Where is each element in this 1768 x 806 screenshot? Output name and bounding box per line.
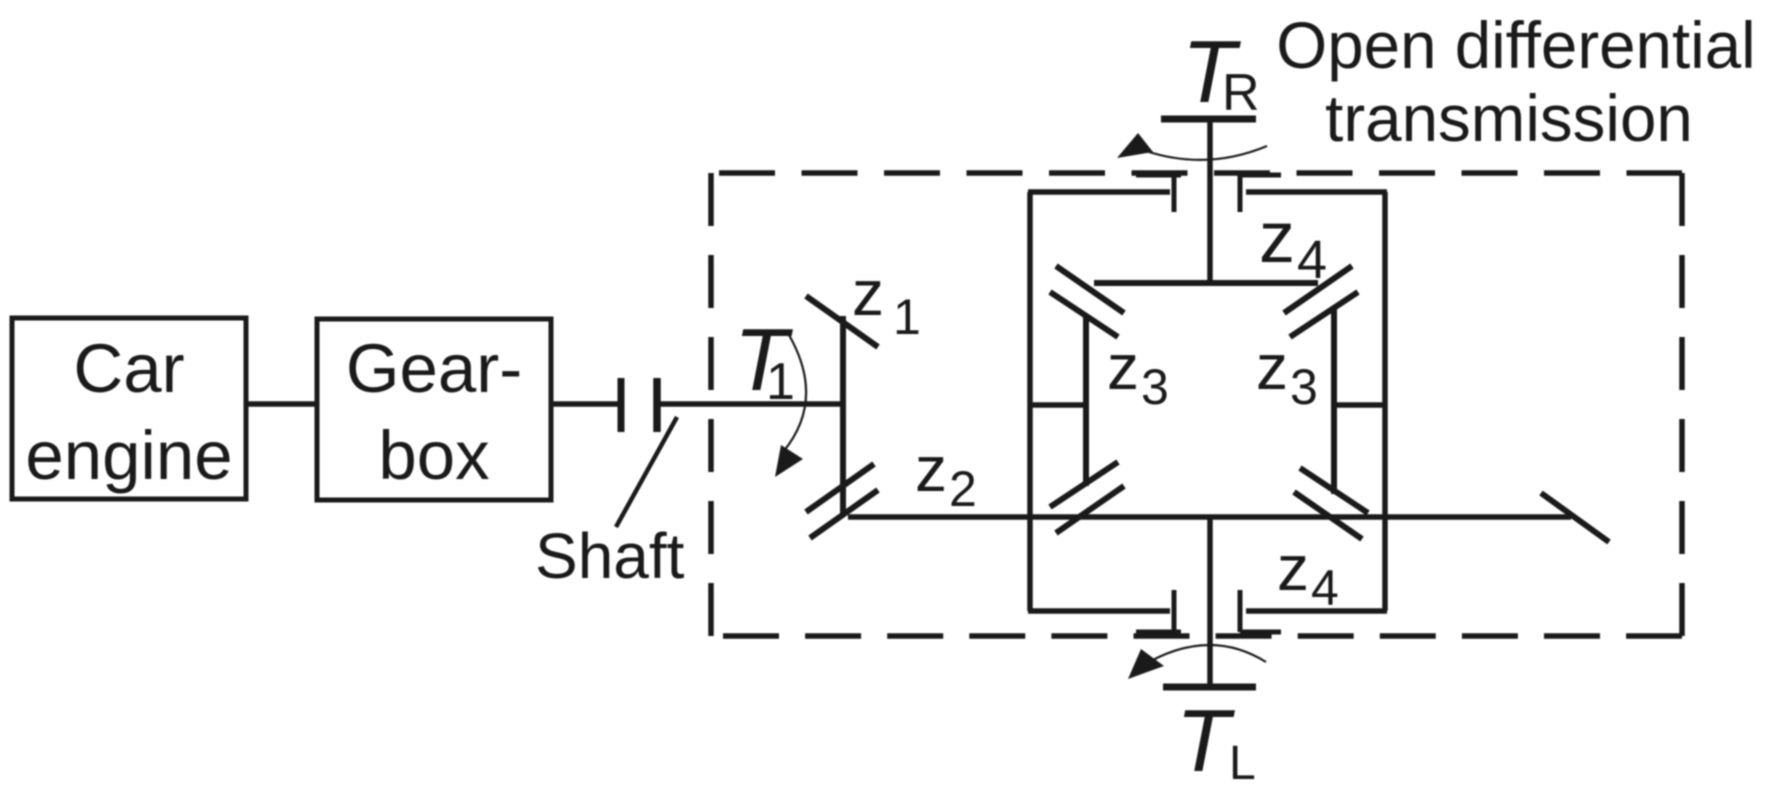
label: z3 right	[1256, 331, 1318, 415]
svg-text:z: z	[1277, 532, 1309, 604]
svg-text:z: z	[1259, 198, 1295, 278]
svg-text:Shaft: Shaft	[535, 520, 685, 592]
bearing bracket top-right	[1240, 175, 1281, 212]
gear z1 bevel stroke	[806, 296, 878, 347]
label: Car engine	[25, 330, 232, 494]
wire: engine to gearbox	[246, 401, 319, 407]
differential cage box	[1028, 192, 1387, 611]
axle line: z2 through differential to right output	[848, 514, 1571, 520]
label: z4 bottom	[1277, 532, 1339, 616]
bevel mesh mark top-left	[1050, 266, 1124, 337]
wire: coupling to gear z1 shaft	[660, 401, 845, 407]
svg-text:3: 3	[1141, 359, 1169, 415]
svg-text:R: R	[1222, 64, 1260, 122]
label: T1 torque	[734, 310, 795, 411]
svg-text:Gear-: Gear-	[346, 330, 522, 407]
bevel mesh mark top-right	[1284, 266, 1358, 337]
planet pinion bar left (z3)	[1083, 314, 1089, 486]
rotation arrow at T1	[783, 335, 806, 452]
bevel mesh mark bottom-left	[1050, 462, 1124, 533]
planet pinion bar right (z3)	[1331, 308, 1337, 494]
svg-text:z: z	[852, 257, 884, 329]
svg-text:Open differential: Open differential	[1276, 9, 1755, 82]
TL end bar	[1163, 684, 1256, 691]
bearing bracket top-left	[1136, 175, 1181, 212]
label: z3 left	[1107, 331, 1169, 415]
dashed boundary: open differential transmission	[711, 173, 1682, 636]
caption: Open differential transmission	[1276, 9, 1755, 155]
shaft: left output to TL	[1207, 517, 1213, 687]
box: Gear-box	[317, 319, 551, 500]
coupling bar left	[618, 378, 625, 432]
box: Car engine	[12, 318, 246, 499]
svg-text:2: 2	[949, 461, 977, 517]
wire: gearbox to coupling	[551, 401, 619, 407]
coupling bar right	[653, 378, 661, 432]
svg-text:Car: Car	[73, 330, 184, 407]
shaft: right output to TR	[1207, 119, 1213, 285]
pinion carrier stub right	[1334, 402, 1385, 408]
label: z4 top	[1259, 198, 1327, 290]
rotation arrow at TL	[1134, 645, 1266, 671]
TR end bar	[1161, 116, 1256, 123]
right output shaft end tick	[1541, 493, 1609, 542]
bearing bracket bottom-left	[1136, 590, 1181, 632]
svg-text:1: 1	[766, 353, 795, 411]
svg-text:z: z	[1107, 331, 1139, 403]
label: z2	[915, 433, 977, 517]
shaft of gear z1 (vertical)	[840, 316, 846, 514]
svg-text:transmission: transmission	[1325, 82, 1693, 155]
svg-text:1: 1	[893, 289, 921, 345]
svg-text:T: T	[1176, 691, 1235, 790]
svg-text:3: 3	[1290, 359, 1318, 415]
label: TR torque	[1182, 22, 1260, 122]
svg-text:4: 4	[1311, 560, 1339, 616]
pinion carrier stub left	[1030, 402, 1086, 408]
leader line: Shaft	[616, 417, 677, 527]
side gear bar (top, right output)	[1094, 280, 1318, 286]
bevel mesh mark bottom-right	[1294, 468, 1368, 539]
rotation arrow at TR	[1146, 146, 1267, 160]
svg-text:L: L	[1229, 737, 1256, 790]
svg-text:box: box	[378, 417, 489, 494]
gear z2 bevel marks	[806, 464, 878, 538]
svg-text:engine: engine	[25, 417, 232, 494]
svg-text:4: 4	[1297, 230, 1327, 290]
label: z1	[852, 257, 921, 345]
bearing bracket bottom-right	[1240, 590, 1281, 632]
label: Gear-box	[346, 330, 522, 494]
svg-text:z: z	[1256, 331, 1288, 403]
label: TL torque	[1176, 691, 1256, 790]
svg-text:z: z	[915, 433, 947, 505]
